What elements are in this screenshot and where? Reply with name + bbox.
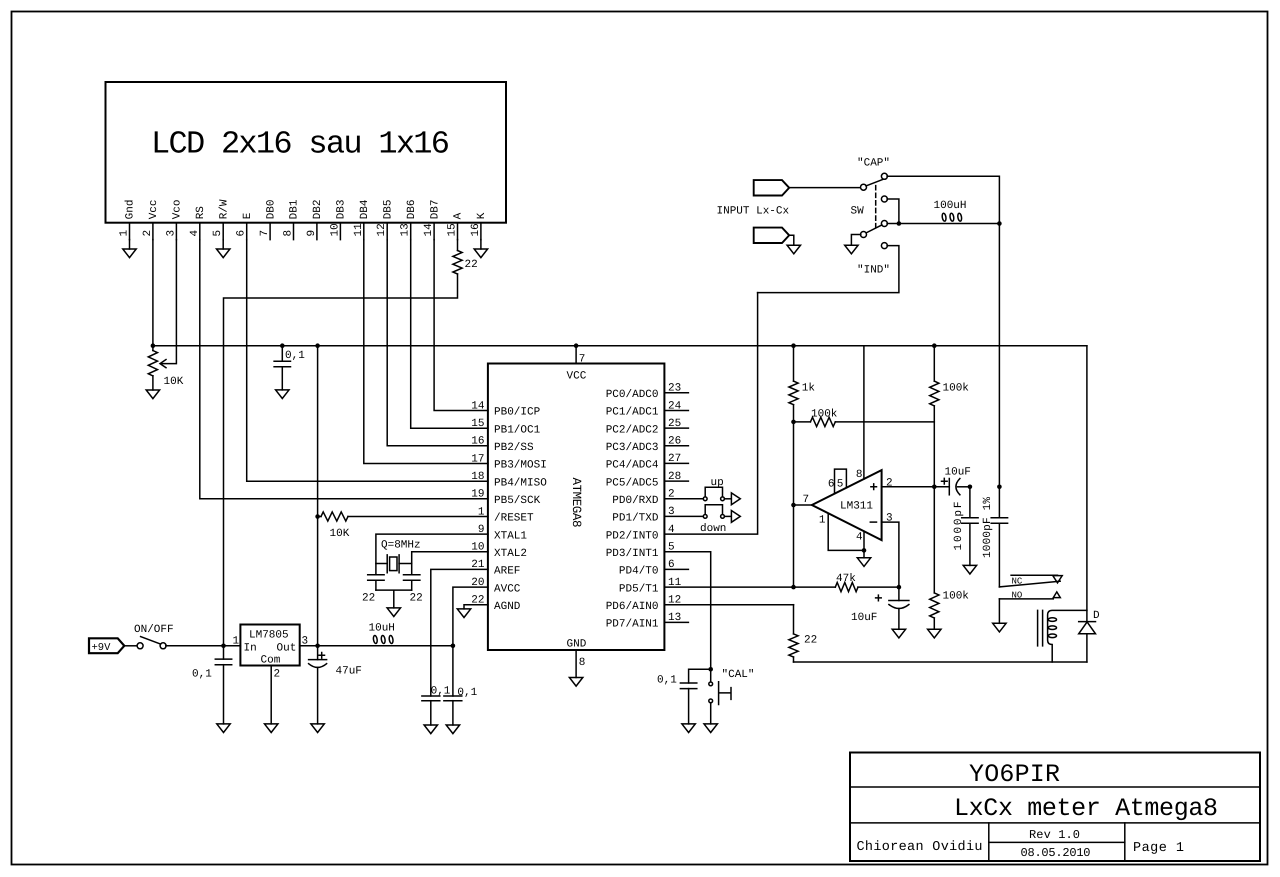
svg-text:AREF: AREF xyxy=(494,566,520,578)
ground at pot xyxy=(146,390,159,399)
switch ON/OFF blade xyxy=(141,637,161,644)
title block rev divider xyxy=(989,841,1125,843)
svg-text:PC2/ADC2: PC2/ADC2 xyxy=(606,424,659,436)
wire CAL button to ground xyxy=(710,703,712,724)
svg-text:INPUT Lx-Cx: INPUT Lx-Cx xyxy=(717,206,790,218)
wire bottom probe to ground xyxy=(789,235,794,245)
resistor 22 (relay drive) xyxy=(789,605,798,662)
wire XTAL2 to crystal xyxy=(399,552,488,564)
wire button up to arrow xyxy=(725,498,732,500)
capacitor 0,1 (AREF) xyxy=(422,646,440,725)
svg-text:DB7: DB7 xyxy=(429,199,441,219)
arrow connector up xyxy=(731,493,740,505)
svg-text:16: 16 xyxy=(470,223,482,236)
wire LM311 pin2 (+) to 10uF xyxy=(882,486,950,488)
capacitor 10uF (series, horizontal polarized) xyxy=(949,479,970,495)
switch IND contact xyxy=(881,243,887,249)
svg-text:Q=8MHz: Q=8MHz xyxy=(381,540,421,552)
relay coil winding xyxy=(1048,610,1087,662)
svg-text:Rev 1.0: Rev 1.0 xyxy=(1029,828,1080,842)
svg-text:D: D xyxy=(1093,610,1100,622)
junction 1k top on rail xyxy=(791,343,796,348)
plus mark 47uF xyxy=(319,653,325,659)
svg-text:A: A xyxy=(453,212,465,219)
ground at LCD pin1 xyxy=(123,249,136,258)
svg-text:12: 12 xyxy=(376,223,388,236)
svg-text:10: 10 xyxy=(329,223,341,236)
relay NO contact triangle xyxy=(1053,592,1060,598)
junction 47k left xyxy=(791,585,796,590)
switch ON/OFF xyxy=(137,643,166,649)
svg-text:3: 3 xyxy=(165,230,177,237)
svg-text:PD7/AIN1: PD7/AIN1 xyxy=(606,619,659,631)
svg-text:0,1: 0,1 xyxy=(285,350,305,362)
wire relay drive bottom rail xyxy=(794,661,1087,663)
resistor 10K (reset pullup) xyxy=(318,512,488,521)
svg-text:DB6: DB6 xyxy=(406,199,418,219)
junction 100k top on rail xyxy=(932,343,937,348)
svg-text:SW: SW xyxy=(851,206,865,218)
svg-text:Chiorean Ovidiu: Chiorean Ovidiu xyxy=(857,840,983,855)
svg-text:DB3: DB3 xyxy=(336,199,348,219)
switch lower-left contact xyxy=(861,232,867,238)
resistor 22 on LCD pin15 A xyxy=(453,240,462,274)
junction 100k divider on +IN line xyxy=(932,485,937,490)
svg-text:Com: Com xyxy=(261,655,281,667)
svg-text:0,1: 0,1 xyxy=(657,675,677,687)
wire IND contact to PD2/INT0 xyxy=(758,246,899,293)
svg-text:PC4/ADC4: PC4/ADC4 xyxy=(606,460,659,472)
svg-text:DB2: DB2 xyxy=(312,199,324,219)
wire CAL node to 0,1 cap xyxy=(689,669,711,683)
wire VCC rail xyxy=(153,345,1087,347)
svg-text:XTAL2: XTAL2 xyxy=(494,548,527,560)
ground at CAL cap xyxy=(682,724,695,733)
wire LCD pin6 E down to PB4 row xyxy=(247,240,488,482)
svg-text:R/W: R/W xyxy=(218,199,230,219)
svg-text:17: 17 xyxy=(471,453,484,465)
junction VCC pin on rail xyxy=(574,343,579,348)
svg-text:22: 22 xyxy=(804,635,817,647)
potentiometer 10K (LCD contrast) xyxy=(148,346,157,390)
junction 10K on VCC riser xyxy=(315,514,320,519)
svg-text:9: 9 xyxy=(306,230,318,237)
svg-text:2: 2 xyxy=(274,669,281,681)
junction 0,1 cap on rail xyxy=(280,343,285,348)
button up bracket xyxy=(705,487,722,496)
pin 8 GND stub xyxy=(575,650,577,678)
wire LCD pin3 Vco down to pot wiper xyxy=(162,240,176,364)
svg-text:Gnd: Gnd xyxy=(125,199,137,219)
wire LCD pin14 DB7 down to PB0 row xyxy=(434,240,488,411)
switch SW blade 1 xyxy=(866,178,886,186)
wire xtal caps common to ground xyxy=(376,590,412,608)
inductor 10uH xyxy=(371,635,395,646)
wire LCD pin5 R/W to ground xyxy=(222,240,224,249)
push button up xyxy=(703,497,724,501)
wire LM311 pin 4 to ground xyxy=(863,531,865,558)
svg-text:4: 4 xyxy=(189,230,201,237)
capacitor 0,1 (input) xyxy=(215,646,231,724)
wire LCD pin16 K to ground xyxy=(480,240,482,249)
svg-text:PD2/INT0: PD2/INT0 xyxy=(606,530,659,542)
svg-text:13: 13 xyxy=(400,223,412,236)
svg-text:Vco: Vco xyxy=(172,199,184,219)
switch SW pole 1 contact xyxy=(861,184,867,190)
svg-text:PB0/ICP: PB0/ICP xyxy=(494,407,541,419)
svg-text:14: 14 xyxy=(471,400,485,412)
svg-text:DB4: DB4 xyxy=(359,199,371,219)
svg-text:PC3/ADC3: PC3/ADC3 xyxy=(606,442,659,454)
svg-text:PD4/T0: PD4/T0 xyxy=(619,566,659,578)
svg-text:47uF: 47uF xyxy=(336,666,362,678)
svg-text:LM7805: LM7805 xyxy=(249,630,289,642)
svg-text:2: 2 xyxy=(142,230,154,237)
switch mid contact (pole2 CAP side) xyxy=(881,196,887,202)
inductor 100uH xyxy=(899,213,1000,224)
svg-text:6: 6 xyxy=(828,479,835,491)
arrow connector down xyxy=(731,511,740,523)
svg-text:22: 22 xyxy=(362,593,375,605)
svg-text:16: 16 xyxy=(471,436,484,448)
svg-text:10uF: 10uF xyxy=(851,612,877,624)
svg-text:In: In xyxy=(244,643,257,655)
svg-text:8: 8 xyxy=(283,230,295,237)
relay contact NC line xyxy=(1011,574,1057,576)
wire LCD pin2 Vcc down to VCC rail xyxy=(152,240,154,346)
svg-text:PD5/T1: PD5/T1 xyxy=(619,583,659,595)
wire +5V line xyxy=(300,645,453,647)
node INPUT Lx-Cx top probe flag xyxy=(754,180,790,195)
title block outer xyxy=(850,753,1260,862)
svg-text:PD3/INT1: PD3/INT1 xyxy=(606,548,659,560)
ground at LCD pin16 xyxy=(474,249,487,258)
resistor 100k (feedback horizontal) xyxy=(794,417,935,426)
resistor 47k xyxy=(794,583,899,592)
LCD pin stubs (pins 7-10 unconnected) xyxy=(130,223,481,240)
junction pot top on rail xyxy=(151,343,156,348)
svg-text:1000pF 1%: 1000pF 1% xyxy=(982,497,994,558)
svg-text:"IND": "IND" xyxy=(857,265,890,277)
junction 47k right xyxy=(897,585,902,590)
svg-text:PB4/MISO: PB4/MISO xyxy=(494,477,547,489)
svg-text:11: 11 xyxy=(353,223,365,237)
LM311 minus input mark xyxy=(870,521,876,523)
svg-text:VCC: VCC xyxy=(567,371,587,383)
wire button down to arrow xyxy=(725,515,732,517)
svg-text:PC0/ADC0: PC0/ADC0 xyxy=(606,389,659,401)
junction LM311 output node xyxy=(791,503,796,508)
svg-text:"CAL": "CAL" xyxy=(722,669,755,681)
svg-text:+9V: +9V xyxy=(92,642,112,654)
wire LM311 pin3 (-) to 47k node xyxy=(882,522,899,587)
resistor 100k (lower divider) xyxy=(930,487,939,630)
comparator LM311 U3 triangle xyxy=(812,470,882,540)
wire AGND to ground xyxy=(464,605,488,609)
switch SW blade 2 xyxy=(866,225,882,233)
ground at crystal xyxy=(387,608,400,617)
svg-text:2: 2 xyxy=(886,477,893,489)
ground at LCD pin5 xyxy=(217,249,230,258)
svg-text:Out: Out xyxy=(277,643,297,655)
svg-text:up: up xyxy=(711,477,724,489)
svg-text:5: 5 xyxy=(212,230,224,237)
wire LM311 output to node xyxy=(794,504,812,506)
svg-text:4: 4 xyxy=(856,532,863,544)
svg-text:10K: 10K xyxy=(330,528,350,540)
svg-text:PD0/RXD: PD0/RXD xyxy=(612,495,659,507)
title block divider 1 xyxy=(850,786,1260,788)
wire XTAL1 to crystal xyxy=(376,534,488,563)
wire PD1 to button xyxy=(664,515,702,517)
title block vertical divider left xyxy=(988,823,990,861)
svg-text:0,1: 0,1 xyxy=(457,687,477,699)
svg-text:15: 15 xyxy=(471,418,484,430)
svg-text:47k: 47k xyxy=(836,573,856,585)
svg-text:LxCx meter Atmega8: LxCx meter Atmega8 xyxy=(954,794,1218,823)
capacitor 10uF (polarized, at minus input) xyxy=(889,587,909,629)
resistor 100k (upper divider) xyxy=(930,346,939,487)
capacitor 0,1 (CAL) xyxy=(680,683,696,724)
svg-text:7: 7 xyxy=(579,354,586,366)
ground at AGND xyxy=(457,609,470,618)
switch pole 2 contact xyxy=(881,221,887,227)
wire PD5/T1 to 47k line xyxy=(664,586,793,588)
svg-text:14: 14 xyxy=(423,223,435,237)
wire AREF to +5V line xyxy=(431,569,488,645)
ground at 0,1 cap xyxy=(276,390,289,399)
svg-text:PB5/SCK: PB5/SCK xyxy=(494,495,541,507)
svg-text:E: E xyxy=(242,212,254,219)
push button CAL xyxy=(710,669,712,682)
svg-text:GND: GND xyxy=(567,639,587,651)
button down bracket xyxy=(705,505,722,514)
junction inductor line left xyxy=(897,221,902,226)
wire PD0 to button xyxy=(664,498,702,500)
wire Com to ground xyxy=(270,666,272,724)
ground at 1000pF xyxy=(963,565,976,574)
junction 47uF / riser xyxy=(315,644,320,649)
capacitor 1000pF xyxy=(962,487,978,566)
wire CAP contact to Lx-Cx node riser xyxy=(887,176,999,487)
CAL button actuator xyxy=(719,682,731,705)
svg-text:7: 7 xyxy=(259,230,271,237)
svg-text:RS: RS xyxy=(195,206,207,220)
wire +9V to switch xyxy=(124,645,138,647)
svg-text:"CAP": "CAP" xyxy=(857,158,890,170)
svg-text:100k: 100k xyxy=(943,383,970,395)
svg-text:8: 8 xyxy=(856,469,863,481)
capacitor 22 (right xtal cap) xyxy=(404,564,420,591)
wire mid contact down to inductor line xyxy=(887,199,899,224)
node INPUT Lx-Cx bottom probe flag xyxy=(754,228,790,243)
ground at lower 100k xyxy=(928,629,941,638)
svg-text:PB1/OC1: PB1/OC1 xyxy=(494,424,541,436)
svg-text:22: 22 xyxy=(410,593,423,605)
unconnected stubs PC0-PC5, PD4, PD7 xyxy=(664,393,688,623)
svg-text:LM311: LM311 xyxy=(840,501,873,513)
ground at input cap xyxy=(217,724,230,733)
node +9V flag xyxy=(89,638,124,653)
relay coil core bars xyxy=(1038,610,1043,646)
regulator LM7805 box xyxy=(240,625,299,666)
svg-text:1k: 1k xyxy=(802,383,816,395)
svg-text:0,1: 0,1 xyxy=(192,669,212,681)
svg-text:/RESET: /RESET xyxy=(494,513,534,525)
ground at switch xyxy=(845,245,858,254)
wire pole2 to inductor line junction xyxy=(887,223,899,225)
push button down xyxy=(703,515,724,519)
svg-text:5: 5 xyxy=(837,479,844,491)
diode D xyxy=(1079,622,1096,634)
pin 7 VCC stub xyxy=(575,346,577,364)
junction inductor right / Lx-Cx riser xyxy=(997,221,1002,226)
svg-text:22: 22 xyxy=(465,259,478,271)
junction AVCC cap node xyxy=(451,644,456,649)
svg-text:PD1/TXD: PD1/TXD xyxy=(612,513,659,525)
wire PD3/INT1 down to CAL net xyxy=(664,552,710,670)
wire switch to regulator input xyxy=(166,645,241,647)
wire under 10uH xyxy=(371,645,395,647)
wire 1k junction down to LM311 output xyxy=(793,422,795,587)
wire A-net: pin15 down, left at y=298, down to +5V line xyxy=(224,274,458,646)
relay NC contact triangle xyxy=(1053,576,1062,583)
svg-text:100k: 100k xyxy=(811,409,838,421)
svg-text:ATMEGA8: ATMEGA8 xyxy=(569,478,583,528)
svg-text:10uH: 10uH xyxy=(369,623,395,635)
wire NO to ground xyxy=(998,599,1000,623)
svg-text:1: 1 xyxy=(233,636,240,648)
LM311 balance pins rectangle xyxy=(835,469,847,494)
wire LM311 pin 1 xyxy=(828,513,864,550)
wire right supply column (rail to diode) xyxy=(1086,346,1088,622)
svg-text:7: 7 xyxy=(803,494,810,506)
LM311 plus input mark xyxy=(871,484,877,490)
svg-text:DB5: DB5 xyxy=(382,199,394,219)
wire PD6/AIN0 to 22 ohm xyxy=(664,604,793,606)
ground at LM311 pin4 xyxy=(857,558,870,567)
wire LCD pin11 DB4 down to PB3 row xyxy=(364,240,488,464)
wire LCD pin13 DB6 down to PB1 row xyxy=(411,240,488,429)
svg-text:PD6/AIN0: PD6/AIN0 xyxy=(606,601,659,613)
junction 100k-h left xyxy=(791,420,796,425)
junction 1000pF top xyxy=(968,485,973,490)
svg-text:down: down xyxy=(700,523,726,535)
plus mark 10uF xyxy=(876,595,882,601)
svg-text:10uF: 10uF xyxy=(945,467,971,479)
LCD module U2 box xyxy=(106,82,507,223)
junction pins 1-4 xyxy=(862,548,867,553)
plus mark series 10uF xyxy=(942,478,948,484)
svg-text:1: 1 xyxy=(819,514,826,526)
svg-text:PB3/MOSI: PB3/MOSI xyxy=(494,460,547,472)
wire VCC riser rail to +5V line xyxy=(317,346,319,646)
capacitor 47uF (polarized) xyxy=(309,646,327,724)
svg-text:1: 1 xyxy=(119,230,131,237)
junction CAL node xyxy=(708,667,713,672)
svg-text:6: 6 xyxy=(236,230,248,237)
svg-text:Vcc: Vcc xyxy=(148,199,160,219)
diode cathode bar xyxy=(1079,621,1096,623)
ground at 47uF xyxy=(311,724,324,733)
svg-text:8: 8 xyxy=(579,657,586,669)
ground at CAL button xyxy=(704,724,717,733)
svg-text:100uH: 100uH xyxy=(934,200,967,212)
wire lower-left contact to ground xyxy=(851,235,860,246)
svg-text:Page 1: Page 1 xyxy=(1133,841,1184,856)
op-amp: ATmega8 MCU U1 box xyxy=(488,364,665,651)
junction 1000pF 1% top xyxy=(997,485,1002,490)
switch mechanical link (dashed) xyxy=(875,186,877,231)
wire top probe to switch pole xyxy=(789,187,860,189)
ground at AVCC cap xyxy=(446,725,459,734)
title block divider 2 xyxy=(850,822,1260,824)
relay blade xyxy=(999,581,1060,587)
ground at AREF cap xyxy=(424,725,437,734)
svg-text:AGND: AGND xyxy=(494,601,521,613)
relay contact NO line xyxy=(999,598,1053,600)
ground at MCU GND pin xyxy=(569,678,582,687)
ground at 10uF xyxy=(892,629,905,638)
svg-text:LCD 2x16 sau 1x16: LCD 2x16 sau 1x16 xyxy=(151,126,450,163)
svg-text:100k: 100k xyxy=(943,591,970,603)
ground at bottom probe xyxy=(787,245,800,254)
svg-text:15: 15 xyxy=(447,223,459,236)
svg-text:K: K xyxy=(476,212,488,219)
capacitor 22 (left xtal cap) xyxy=(368,564,384,591)
wire LM311 pin 8 riser from rail xyxy=(863,346,865,479)
svg-text:AVCC: AVCC xyxy=(494,583,521,595)
svg-text:19: 19 xyxy=(471,489,484,501)
svg-text:08.05.2010: 08.05.2010 xyxy=(1021,846,1091,860)
svg-text:DB0: DB0 xyxy=(265,199,277,219)
wire diode to bottom rail xyxy=(1086,634,1088,662)
wire AVCC to +5V line xyxy=(453,587,488,646)
wire PD2/INT0 up to IND contact net xyxy=(664,293,757,534)
ground at Com xyxy=(265,724,278,733)
switch SW CAP contact xyxy=(881,173,887,179)
wire LCD pin12 DB5 down to PB2 row xyxy=(387,240,488,446)
capacitor 1000pF 1% xyxy=(991,487,1007,587)
wire LCD pin4 RS down to PB5 row xyxy=(200,240,488,499)
title block vertical divider right xyxy=(1124,823,1126,861)
svg-text:YO6PIR: YO6PIR xyxy=(969,760,1060,789)
junction riser on rail xyxy=(315,343,320,348)
ground at NO contact xyxy=(993,623,1006,632)
capacitor 0,1 (AVCC) xyxy=(444,646,462,725)
junction input cap node xyxy=(221,644,226,649)
svg-text:DB1: DB1 xyxy=(289,199,301,219)
wire LCD pin1 Gnd to ground xyxy=(129,240,131,249)
wiper arrowhead of pot xyxy=(160,360,166,368)
svg-text:10K: 10K xyxy=(164,376,184,388)
svg-text:PC1/ADC1: PC1/ADC1 xyxy=(606,407,659,419)
svg-text:PC5/ADC5: PC5/ADC5 xyxy=(606,477,659,489)
svg-text:PB2/SS: PB2/SS xyxy=(494,442,534,454)
capacitor 0,1 on VCC rail xyxy=(274,346,290,390)
svg-text:XTAL1: XTAL1 xyxy=(494,530,527,542)
crystal Q 8MHz symbol xyxy=(387,555,399,573)
svg-text:ON/OFF: ON/OFF xyxy=(134,624,174,636)
svg-text:18: 18 xyxy=(471,471,484,483)
resistor 1k xyxy=(789,346,798,422)
